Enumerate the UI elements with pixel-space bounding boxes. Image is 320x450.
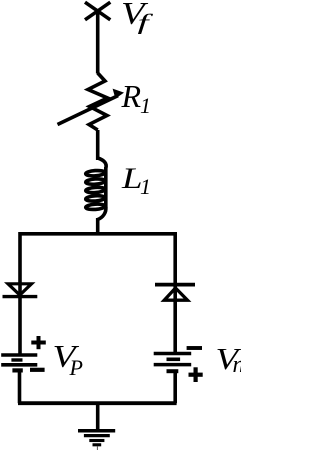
wire D1 to battery VP [18, 296, 22, 354]
label Vf [121, 0, 154, 35]
bottom rail wire [18, 401, 177, 405]
ground symbol [78, 431, 115, 450]
svg-text:1: 1 [140, 174, 151, 199]
svg-text:1: 1 [140, 93, 151, 118]
wire Vf to R1 [96, 12, 100, 74]
wire R1 to L1 [96, 130, 100, 160]
label R1 [121, 78, 152, 118]
minus sign of Vn [187, 346, 202, 350]
svg-text:n: n [233, 352, 242, 378]
battery VP plates [1, 355, 37, 370]
svg-text:f: f [138, 10, 154, 35]
minus sign of VP [30, 368, 45, 372]
arrow of variable resistor R1 [58, 89, 125, 125]
svg-text:R: R [121, 78, 142, 114]
inductor L1 (coil) [86, 158, 107, 220]
plus sign of Vn [189, 367, 203, 382]
top rail wire and side wires [20, 234, 175, 302]
diode D2 (right, pointing up) [155, 285, 195, 301]
label Vn [216, 341, 245, 378]
battery Vn plates [154, 354, 192, 372]
svg-text:P: P [69, 355, 83, 380]
node Vf terminal X [85, 2, 110, 20]
wire battery VP to bottom rail [18, 371, 22, 403]
wire L1 to top rail [96, 218, 100, 235]
wire D2 to battery Vn [173, 300, 177, 353]
diode D1 (left, pointing down) [3, 284, 38, 297]
ground stub wire [96, 402, 100, 429]
plus sign of VP [31, 336, 46, 349]
label L1 [121, 162, 151, 199]
resistor R1 (variable, zigzag) [88, 73, 108, 130]
label VP [53, 339, 83, 380]
wire battery Vn to bottom rail [173, 372, 177, 403]
